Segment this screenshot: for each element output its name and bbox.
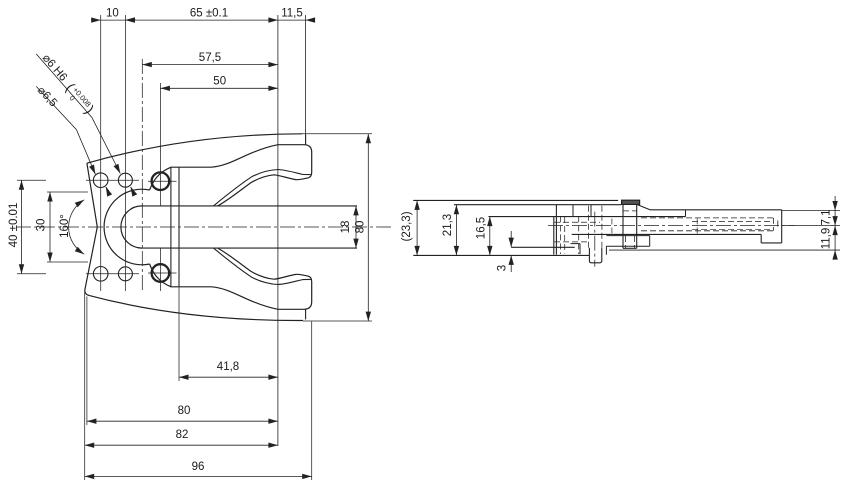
side plate top line (511, 246, 575, 248)
svg-text:80: 80 (178, 405, 191, 417)
extension 23,3 top (413, 199, 421, 201)
dimension 80 bottom (87, 420, 278, 422)
dimension 10 (91, 19, 136, 21)
pivot pin bottom (152, 264, 170, 282)
extension x86.9 (86, 297, 88, 426)
side top edge (413, 199, 618, 201)
arm small vertical (685, 210, 687, 217)
pivot block v2 (555, 205, 557, 255)
arm centerline (548, 225, 795, 227)
block edge vertical x179 (178, 167, 180, 287)
side mid line 216.6 (489, 216, 686, 218)
dimension (23,3) (416, 200, 418, 255)
pivot center mark top (148, 180, 177, 182)
dimension 16,5 (489, 217, 491, 256)
pivot centerline x160.4 lower (159, 248, 161, 291)
hole &#8960;6 H6 top (118, 173, 132, 187)
dimension 18 (355, 206, 357, 248)
slot centerline x142 (141, 59, 143, 292)
arm step (760, 234, 762, 243)
arm top right (650, 209, 782, 211)
spindle hidden threads (624, 236, 626, 248)
svg-text:3: 3 (497, 265, 509, 271)
svg-text:50: 50 (213, 76, 226, 88)
hole &#8960;6,5 top (93, 173, 108, 188)
leader line &#8960;6,5 (36, 86, 95, 174)
svg-text:21,3: 21,3 (442, 214, 454, 236)
upper jaw horn (150, 135, 312, 206)
dimension 11,5 (278, 19, 312, 21)
pivot centerline x160.4 upper (159, 83, 161, 206)
slot U arc (121, 206, 142, 248)
dimension 41,8 (179, 376, 278, 378)
arm hidden slot top (641, 217, 774, 219)
dimension 7,1 (834, 196, 836, 226)
extension x311.7 (311, 322, 313, 481)
dimension 50 (160, 87, 278, 89)
label &#8960;6 H6 +0.008/0 (36, 51, 97, 118)
svg-text:11,5: 11,5 (281, 8, 303, 20)
part body bottom edge (85, 291, 303, 321)
upper band v2 (590, 205, 592, 217)
leader line &#8960;6 H6 (36, 54, 120, 174)
dimension 30 (49, 192, 51, 262)
side bottom edge (413, 254, 589, 256)
svg-text:11,9: 11,9 (821, 228, 833, 250)
dimension 11,9 (834, 226, 836, 256)
cap step slant (638, 205, 650, 210)
svg-text:10: 10 (106, 8, 119, 20)
dimension 96 (85, 475, 312, 477)
dimension 21,3 (455, 205, 457, 256)
arm hidden slot bottom (641, 230, 774, 232)
slot bottom line / 18 extension (142, 247, 357, 249)
horizontal centerline (16, 226, 392, 228)
hole centerline x125.4 (124, 15, 126, 291)
svg-text:160°: 160° (59, 214, 71, 238)
arm hidden slot end (773, 218, 775, 231)
hole bottom right (118, 267, 132, 281)
spindle foot (606, 235, 649, 237)
arm right edge (781, 210, 783, 243)
mid hidden v (578, 216, 580, 254)
extension 80 top (302, 133, 372, 135)
hole bottom left (93, 267, 108, 282)
svg-text:40 ±0.01: 40 ±0.01 (8, 203, 20, 248)
dimension 82 (85, 444, 278, 446)
mid hidden h (554, 221, 600, 223)
spindle bottom (623, 247, 637, 249)
extension 30 bottom (47, 261, 88, 263)
outer U contour (104, 189, 150, 265)
screw cap (622, 200, 640, 204)
extension 30 top (47, 191, 88, 193)
slot top line / 18 extension (142, 205, 357, 207)
dimension 3 (510, 231, 512, 247)
arm hidden inner (692, 221, 770, 223)
part body top edge (87, 134, 302, 163)
svg-text:(23,3): (23,3) (401, 211, 413, 241)
tab P2 center tick (594, 212, 596, 267)
svg-text:57,5: 57,5 (199, 52, 221, 64)
svg-text:65 ±0.1: 65 ±0.1 (190, 8, 228, 20)
lower jaw horn (mirror) (150, 248, 312, 319)
svg-text:16,5: 16,5 (476, 217, 488, 239)
block edge vertical x171 (170, 167, 172, 287)
svg-text:41,8: 41,8 (217, 361, 239, 373)
svg-text:30: 30 (36, 219, 48, 232)
svg-text:7,1: 7,1 (821, 210, 833, 226)
side second top line (454, 204, 621, 206)
dimension 57,5 (142, 64, 278, 66)
spindle right (636, 204, 638, 248)
svg-text:82: 82 (176, 429, 189, 441)
hole row center mark top (17, 179, 46, 181)
spindle left (622, 204, 624, 248)
svg-text:96: 96 (192, 461, 205, 473)
upper band v1 (572, 205, 574, 217)
svg-text:18: 18 (340, 221, 352, 234)
pivot hidden v (560, 216, 562, 254)
arm bottom (572, 233, 762, 235)
extension x84.7 (84, 292, 86, 481)
spindle hidden neck (623, 210, 637, 212)
svg-text:80: 80 (355, 221, 367, 234)
side lower line 250 (609, 249, 840, 251)
mid step (571, 243, 581, 245)
dimension 80 right (367, 134, 369, 321)
pivot block v1 (553, 216, 555, 254)
pivot center mark bottom (148, 272, 177, 274)
dimension 40 &#177;0.01 (21, 180, 23, 274)
hole row center mark bottom (17, 273, 46, 275)
part body left edge V-notch (85, 163, 98, 290)
extension 80 bottom (303, 320, 372, 322)
block right face / extension x278 (277, 15, 279, 446)
extension x179 lower (178, 287, 180, 381)
hole centerline x100.7 (100, 15, 102, 291)
tab P2 (589, 248, 601, 263)
dimension 65 &#177;0.1 (125, 19, 278, 21)
extension line x305.6 (305, 15, 307, 145)
dimension 160&#176; (69, 200, 85, 254)
pivot pin top (152, 172, 170, 190)
